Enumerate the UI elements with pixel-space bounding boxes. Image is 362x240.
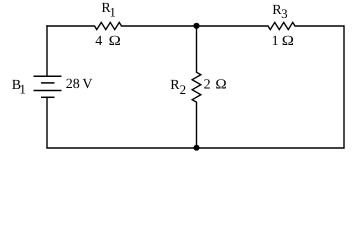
svg-text:4: 4 bbox=[95, 34, 102, 49]
svg-text:Ω: Ω bbox=[282, 34, 294, 49]
svg-text:1: 1 bbox=[109, 5, 116, 20]
svg-text:3: 3 bbox=[281, 6, 288, 21]
svg-text:Ω: Ω bbox=[215, 78, 226, 93]
svg-text:V: V bbox=[82, 77, 92, 92]
svg-text:28: 28 bbox=[66, 77, 80, 92]
svg-text:1: 1 bbox=[272, 34, 279, 49]
svg-text:2: 2 bbox=[180, 82, 187, 97]
svg-text:2: 2 bbox=[204, 78, 211, 93]
svg-text:1: 1 bbox=[19, 82, 26, 97]
svg-text:Ω: Ω bbox=[109, 34, 121, 49]
